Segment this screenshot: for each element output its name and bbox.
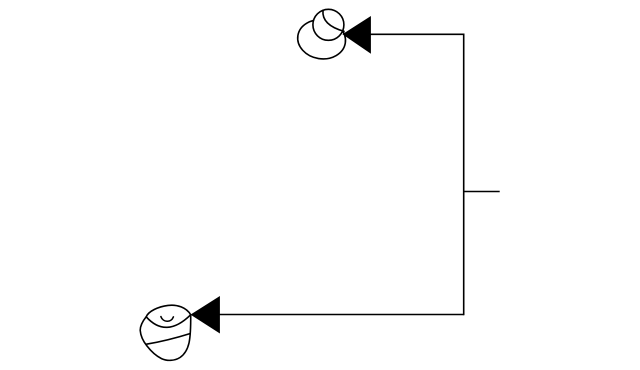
wire right vertical — [463, 34, 465, 316]
wire bottom horizontal leader — [192, 314, 464, 316]
wire middle tick — [464, 191, 500, 193]
wire top horizontal leader — [344, 33, 464, 35]
grommet part B (bottom) — [140, 305, 191, 360]
arrow to part B — [191, 296, 220, 334]
arrow to part A — [342, 16, 371, 54]
grommet part A (top) — [295, 9, 349, 62]
